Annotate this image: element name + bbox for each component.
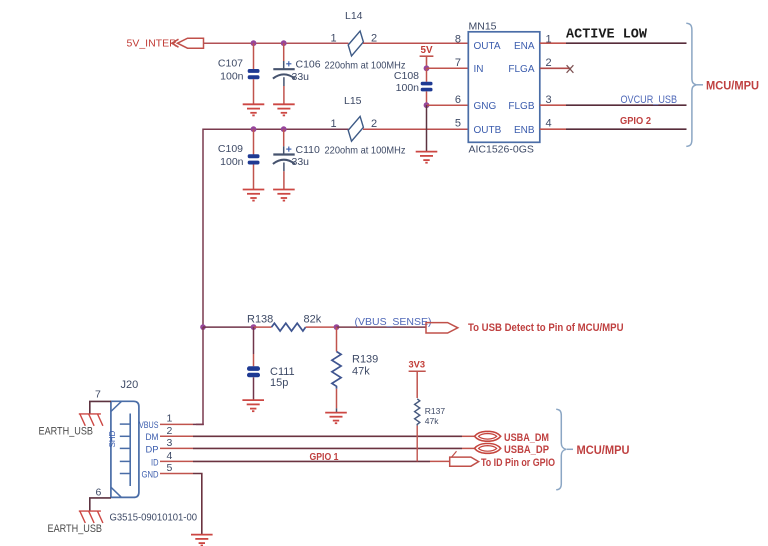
svg-text:DM: DM xyxy=(146,432,159,443)
svg-text:To ID Pin or GPIO: To ID Pin or GPIO xyxy=(481,457,555,469)
svg-text:8: 8 xyxy=(455,34,461,46)
svg-text:15p: 15p xyxy=(270,377,288,389)
svg-text:47k: 47k xyxy=(352,365,370,377)
junction GNG pin node xyxy=(424,102,430,108)
svg-text:3: 3 xyxy=(167,437,173,449)
IC MN15 body (AIC1526-0GS) xyxy=(468,32,540,143)
ground (C109) xyxy=(243,190,265,201)
wire L15 rail left vertical corner xyxy=(203,129,349,327)
wire ENB to MCU xyxy=(566,128,687,130)
svg-text:3V3: 3V3 xyxy=(409,360,426,370)
capacitor C110 (polarized) xyxy=(273,129,295,189)
svg-text:5: 5 xyxy=(455,118,461,130)
wire VBUS_SENSE xyxy=(337,326,427,328)
wire DM to USBA_DM xyxy=(462,435,475,437)
capacitor C108 xyxy=(421,68,433,105)
junction L15 rail / C109 xyxy=(251,126,257,132)
svg-text:1: 1 xyxy=(331,33,337,45)
wire GND pin stub xyxy=(160,473,193,475)
wire GNG node to ground xyxy=(426,105,428,151)
svg-text:EARTH_USB: EARTH_USB xyxy=(48,523,103,535)
svg-text:5V: 5V xyxy=(421,45,433,56)
svg-text:220ohm at 100MHz: 220ohm at 100MHz xyxy=(325,145,406,157)
wire DP pin stub xyxy=(160,447,193,449)
junction top rail / C106 xyxy=(281,40,287,46)
capacitor C106 polarity + xyxy=(286,61,291,66)
wire ENA to MCU xyxy=(566,42,687,44)
svg-text:4: 4 xyxy=(167,450,173,462)
wire ID pin stub xyxy=(160,460,193,462)
svg-text:VBUS: VBUS xyxy=(139,420,159,431)
ground (C107) xyxy=(243,104,265,115)
svg-text:OUTB: OUTB xyxy=(474,125,502,136)
svg-text:33u: 33u xyxy=(292,71,310,83)
svg-text:1: 1 xyxy=(167,413,173,425)
wire DP run xyxy=(193,447,462,449)
svg-text:C108: C108 xyxy=(394,70,419,82)
ground (GNG / C108) xyxy=(416,152,438,163)
junction R138 right / R139 xyxy=(334,324,340,330)
svg-text:C110: C110 xyxy=(296,144,320,156)
connector J20 contact spine xyxy=(129,414,131,487)
wire ENA pin1 stub xyxy=(540,42,566,44)
brace MCU/MPU top xyxy=(686,23,703,146)
wire FLGA pin2 stub xyxy=(540,67,571,69)
svg-text:R139: R139 xyxy=(352,353,378,365)
wire DM run xyxy=(193,435,462,437)
svg-text:MN15: MN15 xyxy=(469,21,497,33)
chassis earth (pin 7) xyxy=(79,414,103,426)
svg-text:SHD: SHD xyxy=(108,430,117,447)
resistor R139 xyxy=(332,327,341,413)
ground (R139) xyxy=(325,413,347,424)
wire DP to USBA_DP xyxy=(462,447,475,449)
svg-text:2: 2 xyxy=(167,425,173,437)
ground (C106) xyxy=(273,104,295,115)
wire GND to ground xyxy=(193,474,202,535)
svg-text:OVCUR_USB: OVCUR_USB xyxy=(621,94,678,106)
svg-text:100n: 100n xyxy=(396,82,420,94)
svg-text:GPIO 1: GPIO 1 xyxy=(310,452,339,463)
junction R138 left / C111 xyxy=(251,324,257,330)
svg-text:3: 3 xyxy=(546,94,552,106)
svg-text:100n: 100n xyxy=(220,156,244,168)
svg-text:GND: GND xyxy=(142,469,159,480)
wire DM pin stub xyxy=(160,435,193,437)
connector J20 shield chamfer bottom xyxy=(111,487,122,497)
power 5V symbol xyxy=(420,56,434,68)
svg-text:47k: 47k xyxy=(425,416,439,426)
svg-text:7: 7 xyxy=(455,57,461,69)
svg-text:C109: C109 xyxy=(218,143,243,155)
svg-text:R137: R137 xyxy=(425,406,446,416)
svg-text:AIC1526-0GS: AIC1526-0GS xyxy=(469,143,534,155)
resistor R137 xyxy=(415,399,420,462)
svg-text:6: 6 xyxy=(455,94,461,106)
svg-text:4: 4 xyxy=(546,118,552,130)
capacitor C109 xyxy=(248,129,260,189)
svg-text:G3515-09010101-00: G3515-09010101-00 xyxy=(110,511,198,523)
svg-text:C107: C107 xyxy=(218,58,243,70)
brace MCU/MPU bottom xyxy=(556,409,573,490)
svg-text:2: 2 xyxy=(371,118,377,130)
svg-text:ACTIVE LOW: ACTIVE LOW xyxy=(566,28,648,43)
connector USBA_DP off-page oval xyxy=(475,444,501,454)
wire pin 7 shield stub xyxy=(90,401,111,414)
connector USBA_DM off-page oval xyxy=(475,431,501,441)
no-connect X on FLGA xyxy=(567,65,574,73)
inductor L14 body (ferrite bead) xyxy=(348,31,363,56)
wire ID run xyxy=(193,460,430,462)
svg-text:82k: 82k xyxy=(304,314,322,326)
junction L15 rail / C110 xyxy=(281,126,287,132)
junction VBUS vertical / R138 xyxy=(200,324,206,330)
wire L15 rail right (L15 pin2 to IC pin5) xyxy=(363,128,468,130)
chassis earth (pin 6) xyxy=(79,511,103,523)
svg-text:USBA_DP: USBA_DP xyxy=(504,444,549,456)
junction top rail / C107 xyxy=(251,40,257,46)
wire pin 6 shield stub xyxy=(90,498,111,511)
ground (C111) xyxy=(242,400,264,411)
wire VBUS pin stub xyxy=(160,423,193,425)
resistor R138 xyxy=(254,323,337,331)
wire FLGB to MCU xyxy=(566,104,687,106)
svg-text:GPIO 2: GPIO 2 xyxy=(620,115,651,127)
svg-text:7: 7 xyxy=(95,388,101,400)
wire ENB pin4 stub xyxy=(540,128,566,130)
svg-text:OUTA: OUTA xyxy=(474,41,501,52)
svg-text:MCU/MPU: MCU/MPU xyxy=(706,78,759,92)
svg-text:R138: R138 xyxy=(247,314,273,326)
wire VBUS to vertical xyxy=(193,423,204,425)
ground (C110) xyxy=(273,190,295,201)
wire ID to connector xyxy=(430,460,450,462)
svg-text:J20: J20 xyxy=(121,379,139,391)
connector J20 contact stubs xyxy=(120,424,130,473)
svg-text:USBA_DM: USBA_DM xyxy=(504,432,549,444)
wire IN pin7 xyxy=(427,67,469,69)
svg-text:IN: IN xyxy=(474,64,484,75)
connector J20 USB body xyxy=(111,401,139,497)
capacitor C106 (polarized) xyxy=(273,43,295,104)
ground (J20 GND) xyxy=(191,535,213,546)
power 3V3 symbol xyxy=(409,371,426,398)
svg-text:5: 5 xyxy=(167,462,173,474)
svg-text:L14: L14 xyxy=(345,10,363,22)
wire top rail right (L14 pin2 to IC pin8) xyxy=(363,42,468,44)
capacitor C107 xyxy=(248,43,260,104)
wire GNG pin6 xyxy=(427,104,469,106)
svg-text:C106: C106 xyxy=(296,59,321,71)
svg-text:(VBUS_SENSE): (VBUS_SENSE) xyxy=(355,316,432,328)
wire top rail left (5V_INTER to L14 pin1) xyxy=(204,42,349,44)
svg-text:6: 6 xyxy=(96,486,102,498)
connector To-ID off-page symbol xyxy=(450,451,479,466)
svg-text:ENA: ENA xyxy=(514,41,535,52)
wire VBUS vertical (rail to VBUS pin) xyxy=(196,327,203,424)
svg-text:FLGB: FLGB xyxy=(508,101,534,112)
svg-text:To USB Detect to Pin of MCU/MP: To USB Detect to Pin of MCU/MPU xyxy=(468,322,624,334)
capacitor C110 polarity + xyxy=(286,147,291,152)
connector 5V_INTER off-page symbol xyxy=(178,38,204,48)
svg-text:1: 1 xyxy=(331,118,337,130)
svg-text:100n: 100n xyxy=(220,71,244,83)
svg-text:MCU/MPU: MCU/MPU xyxy=(577,443,630,457)
svg-text:2: 2 xyxy=(546,57,552,69)
svg-text:GNG: GNG xyxy=(474,101,497,112)
wire VBUS node to R138 xyxy=(203,326,254,328)
svg-text:L15: L15 xyxy=(344,95,362,107)
svg-text:ID: ID xyxy=(151,457,159,468)
wire FLGB pin3 stub xyxy=(540,104,566,106)
svg-text:ENB: ENB xyxy=(514,125,535,136)
connector VBUS_SENSE off-page symbol xyxy=(426,323,458,333)
svg-text:FLGA: FLGA xyxy=(508,64,534,75)
capacitor C111 xyxy=(247,327,260,400)
junction IN pin node xyxy=(424,65,430,71)
connector J20 shield chamfer top xyxy=(111,401,122,411)
svg-text:33u: 33u xyxy=(292,156,310,168)
svg-text:DP: DP xyxy=(146,444,159,455)
inductor L15 body (ferrite bead) xyxy=(348,116,363,141)
svg-text:EARTH_USB: EARTH_USB xyxy=(39,426,94,438)
svg-text:5V_INTER: 5V_INTER xyxy=(127,38,178,50)
